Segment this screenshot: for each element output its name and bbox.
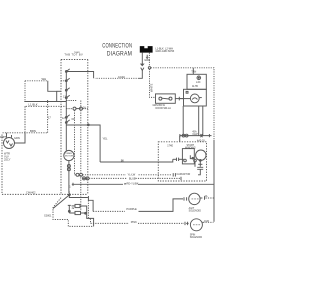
- svg-text:4A: 4A: [205, 195, 208, 198]
- svg-text:YL-LW: YL-LW: [128, 173, 136, 177]
- svg-text:4A2-2V: 4A2-2V: [197, 140, 205, 143]
- svg-text:GRD-GRN 60HZ: GRD-GRN 60HZ: [155, 50, 174, 53]
- svg-text:DIAGRAM: DIAGRAM: [107, 51, 132, 58]
- svg-text:GRD: GRD: [144, 58, 150, 62]
- svg-text:MOTOR: MOTOR: [65, 156, 74, 158]
- svg-text:174E: 174E: [167, 145, 173, 148]
- svg-text:BK: BK: [121, 158, 125, 162]
- svg-text:L4C: L4C: [196, 81, 201, 84]
- svg-text:PINK: PINK: [131, 220, 137, 224]
- svg-text:YEL: YEL: [103, 136, 108, 140]
- svg-text:OLB: OLB: [204, 220, 209, 223]
- svg-text:WINDING: WINDING: [185, 146, 196, 149]
- svg-text:HOT: HOT: [0, 135, 6, 139]
- svg-text:TAB TDT BV: TAB TDT BV: [64, 53, 83, 57]
- svg-text:WHITE: WHITE: [150, 83, 154, 92]
- svg-text:PURPLE: PURPLE: [126, 207, 137, 211]
- svg-text:CAPACITOR: CAPACITOR: [177, 173, 191, 176]
- svg-text:25CY: 25CY: [4, 158, 11, 162]
- svg-text:BRN: BRN: [30, 129, 36, 133]
- svg-text:TAN: TAN: [191, 70, 196, 74]
- svg-text:BLUE: BLUE: [129, 176, 136, 180]
- svg-text:C0801: C0801: [44, 215, 52, 218]
- svg-text:L1 BLK: L1 BLK: [29, 103, 38, 107]
- svg-text:DOOR SW-LA: DOOR SW-LA: [156, 107, 172, 110]
- svg-text:CAV402: CAV402: [26, 191, 36, 195]
- svg-text:▶RD-YL/BK: ▶RD-YL/BK: [125, 182, 139, 186]
- svg-text:GRN: GRN: [14, 136, 20, 140]
- svg-text:CONNECTION: CONNECTION: [102, 43, 132, 50]
- svg-text:31LP: 31LP: [192, 133, 198, 136]
- svg-text:6A: 6A: [72, 118, 75, 121]
- svg-text:1A: 1A: [83, 106, 86, 109]
- svg-text:WH: WH: [42, 77, 47, 81]
- svg-text:TIMER: TIMER: [65, 153, 72, 155]
- svg-text:0-6AV: 0-6AV: [118, 75, 125, 79]
- svg-text:SOLENOID: SOLENOID: [189, 210, 202, 213]
- svg-text:4L7B: 4L7B: [192, 85, 198, 88]
- svg-text:SOLENOID: SOLENOID: [190, 236, 203, 239]
